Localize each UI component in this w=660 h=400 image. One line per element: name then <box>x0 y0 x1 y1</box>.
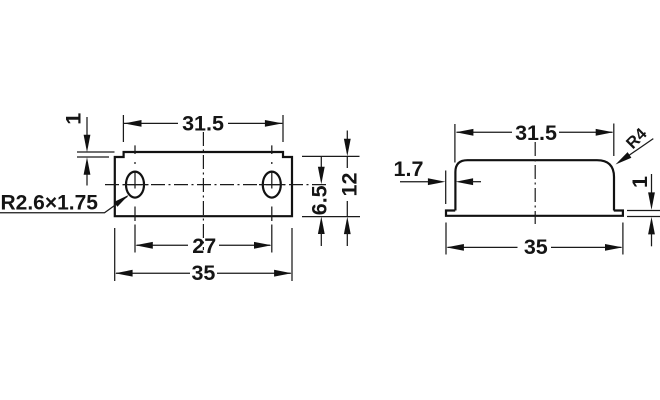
svg-text:35: 35 <box>191 261 215 285</box>
svg-text:31.5: 31.5 <box>515 121 557 145</box>
svg-text:1.7: 1.7 <box>394 157 424 181</box>
svg-text:12: 12 <box>338 173 362 197</box>
svg-text:6.5: 6.5 <box>308 185 332 215</box>
svg-text:R2.6×1.75: R2.6×1.75 <box>1 190 99 214</box>
svg-text:1: 1 <box>628 176 652 188</box>
svg-text:31.5: 31.5 <box>182 112 224 136</box>
svg-text:35: 35 <box>524 235 548 259</box>
svg-text:1: 1 <box>62 113 86 125</box>
svg-text:27: 27 <box>192 234 216 258</box>
